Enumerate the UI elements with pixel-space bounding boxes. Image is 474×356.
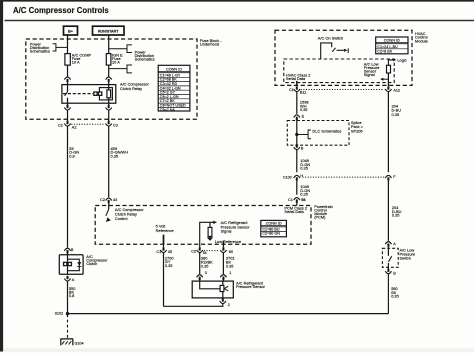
- svg-text:45: 45: [168, 250, 172, 254]
- svg-text:Reference: Reference: [156, 228, 174, 233]
- svg-text:60: 60: [229, 250, 233, 254]
- svg-text:Control: Control: [115, 216, 128, 221]
- svg-text:10 A: 10 A: [112, 60, 120, 65]
- svg-text:A2: A2: [72, 125, 77, 129]
- svg-text:S102: S102: [55, 312, 64, 316]
- svg-text:C1: C1: [288, 198, 293, 202]
- svg-text:C2=80 GN: C2=80 GN: [262, 232, 280, 236]
- svg-text:C3: C3: [113, 124, 118, 128]
- svg-text:A/C Compressor Controls: A/C Compressor Controls: [13, 6, 109, 15]
- svg-text:Serial Data: Serial Data: [286, 76, 306, 81]
- svg-text:0.35: 0.35: [201, 264, 209, 269]
- svg-text:(PCM): (PCM): [314, 215, 326, 220]
- svg-text:0.35: 0.35: [391, 294, 399, 299]
- svg-text:B: B: [71, 248, 74, 252]
- svg-text:C1: C1: [156, 250, 161, 254]
- svg-text:43: 43: [113, 198, 117, 202]
- svg-text:1: 1: [229, 271, 231, 275]
- svg-text:0.35: 0.35: [300, 166, 308, 171]
- svg-text:0.8: 0.8: [69, 293, 74, 298]
- svg-text:DLC Schematics: DLC Schematics: [312, 128, 341, 133]
- svg-text:C1=24 L-BU: C1=24 L-BU: [377, 45, 398, 49]
- svg-text:B: B: [301, 147, 304, 151]
- svg-text:C2=8 BK: C2=8 BK: [377, 50, 392, 54]
- svg-text:C9=2 NA: C9=2 NA: [160, 108, 176, 112]
- svg-text:0.8: 0.8: [69, 154, 74, 159]
- svg-text:RUN/START: RUN/START: [98, 30, 119, 34]
- svg-text:10 A: 10 A: [72, 60, 80, 65]
- svg-text:CONN ID: CONN ID: [266, 222, 282, 226]
- svg-text:0.35: 0.35: [392, 112, 400, 117]
- svg-text:0.35: 0.35: [300, 107, 308, 112]
- svg-text:Serial Data: Serial Data: [284, 209, 304, 214]
- svg-text:C2: C2: [58, 123, 63, 127]
- svg-text:Clutch Relay: Clutch Relay: [120, 86, 142, 91]
- svg-text:Low Reference: Low Reference: [215, 239, 241, 244]
- svg-text:E: E: [302, 115, 305, 119]
- svg-text:Schematics: Schematics: [135, 56, 155, 61]
- svg-text:A/C On Switch: A/C On Switch: [318, 36, 343, 41]
- svg-text:Logic: Logic: [397, 57, 406, 62]
- svg-text:0.35: 0.35: [165, 263, 173, 268]
- svg-text:Switch: Switch: [400, 255, 411, 260]
- svg-text:Signal: Signal: [221, 229, 232, 234]
- svg-text:58: 58: [301, 198, 305, 202]
- svg-text:A: A: [72, 278, 75, 282]
- svg-text:C2: C2: [191, 250, 196, 254]
- svg-text:C2: C2: [100, 198, 105, 202]
- svg-text:CONN ID: CONN ID: [384, 38, 400, 42]
- svg-text:G104: G104: [75, 342, 84, 346]
- svg-text:SP206: SP206: [351, 129, 363, 134]
- svg-text:0.35: 0.35: [392, 212, 400, 217]
- svg-text:CONN ID: CONN ID: [166, 68, 182, 72]
- svg-text:Clutch: Clutch: [86, 261, 97, 266]
- svg-text:A12: A12: [393, 88, 400, 92]
- svg-text:Module: Module: [415, 38, 428, 43]
- svg-text:Signal: Signal: [364, 72, 375, 77]
- svg-text:C100: C100: [283, 175, 292, 179]
- svg-text:Pressure Sensor: Pressure Sensor: [236, 284, 266, 289]
- svg-text:0.35: 0.35: [111, 154, 119, 159]
- svg-text:Underhood: Underhood: [200, 42, 219, 47]
- svg-text:2: 2: [228, 303, 230, 307]
- svg-text:C1: C1: [289, 88, 294, 92]
- svg-text:54: 54: [203, 251, 207, 255]
- svg-text:B: B: [393, 272, 396, 276]
- svg-text:Schematics: Schematics: [30, 48, 50, 53]
- svg-text:A: A: [393, 242, 396, 246]
- svg-text:B11: B11: [300, 90, 306, 94]
- svg-text:0.35: 0.35: [226, 263, 234, 268]
- svg-text:B+: B+: [68, 30, 74, 34]
- svg-text:3: 3: [205, 271, 207, 275]
- svg-text:0.35: 0.35: [300, 192, 308, 197]
